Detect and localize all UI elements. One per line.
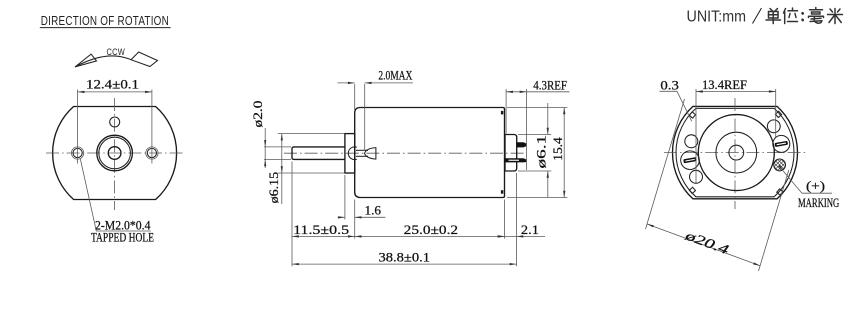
interior shaft lines	[356, 149, 368, 151]
svg-text:MARKING: MARKING	[798, 195, 839, 210]
svg-text:2.1: 2.1	[521, 222, 539, 237]
front bearing boss inner ring	[99, 137, 131, 169]
back view vertical centerline	[734, 98, 736, 209]
dimension 11.5±0.5	[292, 235, 355, 237]
back view horizontal centerline	[664, 152, 806, 154]
motor shaft	[292, 147, 345, 160]
motor body can	[355, 108, 505, 198]
svg-text:15.4: 15.4	[550, 137, 565, 161]
back view outer outline	[672, 106, 797, 198]
svg-text:CCW: CCW	[107, 47, 126, 58]
dimension 2.0MAX extension lines	[354, 84, 356, 110]
svg-text:TAPPED HOLE: TAPPED HOLE	[91, 230, 154, 245]
leader for tapped holes	[80, 159, 151, 231]
svg-text:(+): (+)	[806, 178, 825, 193]
dimension 25.0±0.2	[355, 235, 505, 237]
front view horizontal centerline	[46, 152, 183, 154]
front bearing boss (side)	[345, 134, 355, 173]
dimension 12.4±0.1	[78, 91, 152, 93]
dimension 15.4 extension lines	[507, 107, 567, 109]
svg-text:ø6.1: ø6.1	[534, 135, 549, 169]
dimension φ20.4	[647, 224, 760, 266]
svg-text:12.4±0.1: 12.4±0.1	[86, 76, 139, 91]
back view inner rim outline	[676, 108, 794, 196]
dimension 4.3REF extension lines	[505, 89, 507, 134]
dimension φ2.0	[264, 128, 266, 168]
can crimp tab bottom	[501, 190, 503, 194]
can crimp tab top	[501, 111, 503, 115]
svg-text:ø20.4: ø20.4	[682, 227, 731, 257]
dimension 2.1	[498, 235, 517, 237]
CCW rotation arc	[75, 56, 131, 67]
svg-text:DIRECTION OF ROTATION: DIRECTION OF ROTATION	[41, 13, 169, 28]
tapped hole left	[73, 148, 82, 157]
dimension 1.6	[338, 216, 345, 218]
vent hole bottom-left	[690, 170, 703, 183]
dimension 4.3REF	[506, 91, 526, 93]
dimension φ6.15 extension lines	[278, 133, 345, 135]
front shaft circle	[108, 147, 121, 160]
svg-text:2.0MAX: 2.0MAX	[378, 67, 412, 82]
shaft tip extension	[291, 162, 293, 267]
back shaft circle	[729, 145, 744, 160]
dimension φ2.0 extension lines	[264, 146, 291, 148]
body left edge extension	[354, 200, 356, 239]
unit note Chinese 单位：毫米	[766, 8, 843, 24]
interior cone (shaft tip)	[365, 147, 376, 159]
dimension 13.4REF extension lines	[695, 89, 697, 184]
svg-text:0.3: 0.3	[660, 77, 679, 92]
marking leader	[778, 165, 783, 171]
brush screw left	[679, 149, 701, 171]
svg-text:ø6.15: ø6.15	[266, 172, 281, 204]
CCW arrowhead	[75, 54, 96, 67]
front top hole	[110, 117, 120, 127]
body right edge extension	[504, 200, 506, 239]
front view vertical centerline	[114, 98, 116, 210]
interior bearing dome	[348, 147, 357, 160]
svg-text:UNIT:mm: UNIT:mm	[687, 8, 747, 25]
CCW tail quadrilateral	[131, 52, 158, 67]
svg-text:1.6: 1.6	[365, 202, 382, 217]
dimension 1.6 extension line	[344, 175, 346, 220]
terminal pin bottom	[505, 158, 527, 162]
dimension φ20.4 extension lines	[646, 99, 685, 229]
dimension 15.4	[563, 108, 565, 198]
dimension 13.4REF	[696, 91, 776, 93]
vent hole top-left	[685, 135, 698, 148]
crimp tab top-left	[689, 112, 695, 118]
crimp tab bottom-left	[689, 187, 695, 193]
hole centerline / extension right	[151, 90, 153, 164]
crimp tab top-right	[775, 111, 781, 117]
front view motor outline (circle with flats)	[53, 107, 177, 200]
svg-text:ø2.0: ø2.0	[250, 101, 265, 128]
dimension φ6.15	[281, 134, 283, 204]
svg-text:4.3REF: 4.3REF	[533, 77, 567, 92]
svg-text:25.0±0.2: 25.0±0.2	[404, 222, 458, 237]
dimension φ6.1 extension lines	[518, 134, 551, 136]
endcap right extension	[516, 173, 518, 266]
centerline continuation dash	[152, 152, 154, 154]
vent hole top-right	[767, 120, 780, 133]
dimension 2.0MAX	[338, 82, 355, 84]
dimension φ6.1	[547, 103, 549, 135]
hole centerline / extension left	[77, 90, 79, 164]
tapped hole right	[147, 148, 156, 157]
svg-text:38.8±0.1: 38.8±0.1	[379, 250, 431, 265]
svg-text:11.5±0.5: 11.5±0.5	[293, 222, 349, 237]
dimension 38.8±0.1	[292, 263, 517, 265]
endcap boss	[505, 135, 517, 172]
side view horizontal centerline	[284, 152, 524, 154]
svg-text:13.4REF: 13.4REF	[702, 77, 747, 92]
front bearing boss circle	[97, 135, 133, 171]
back bearing circle large	[698, 115, 774, 191]
terminal pin top	[517, 142, 527, 147]
brush screw right	[771, 134, 791, 154]
crimp tab bottom-right	[777, 189, 783, 195]
back circle medium	[716, 132, 757, 173]
